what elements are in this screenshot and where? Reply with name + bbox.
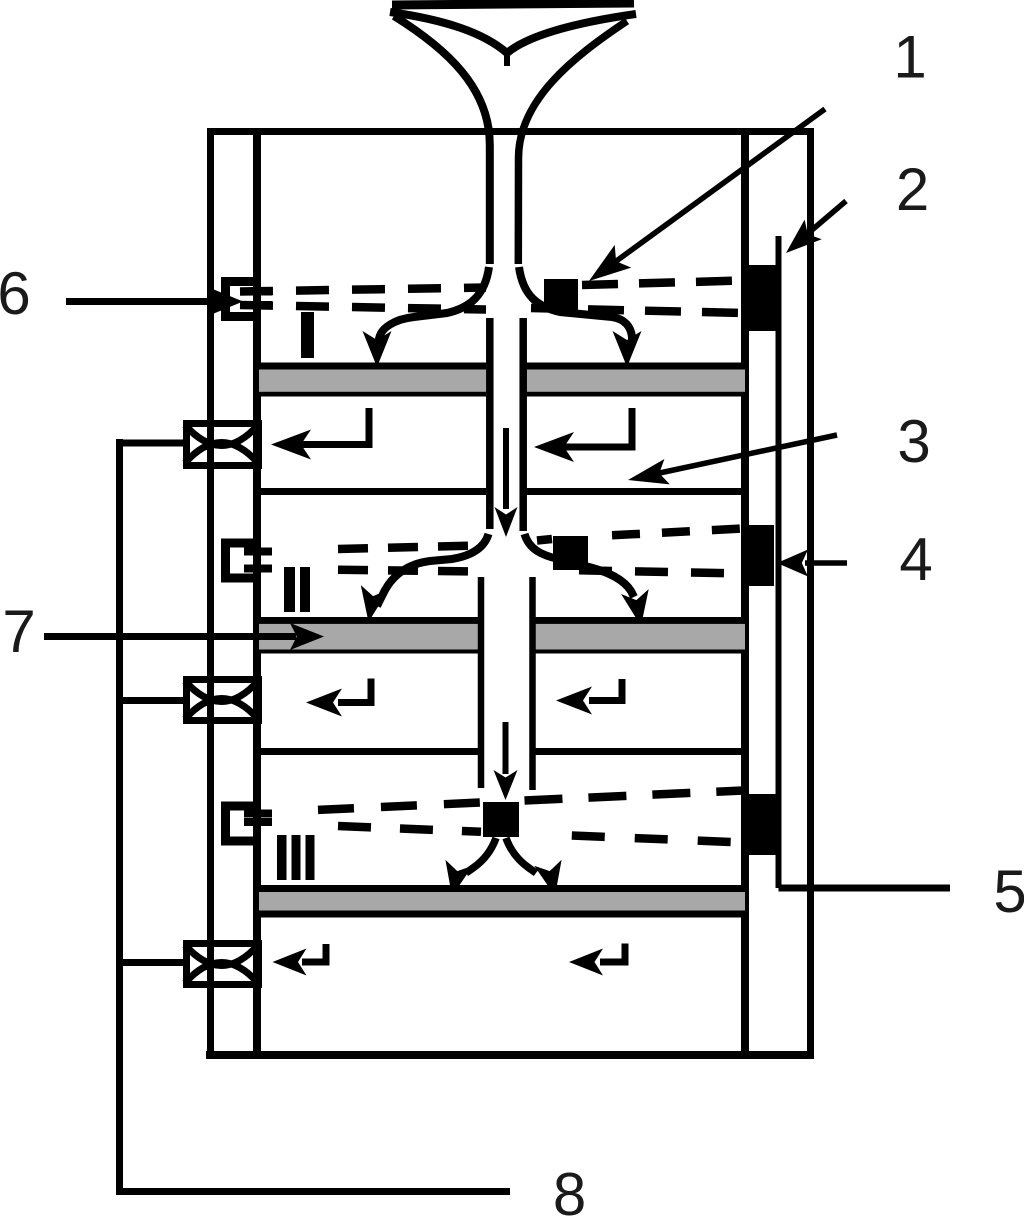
signal line to 5 (779, 885, 951, 892)
valve branch III (116, 959, 183, 966)
nozzle block 3 (stage III) (483, 802, 519, 837)
valve branch II (116, 697, 183, 704)
label 2 (896, 156, 929, 223)
stage I beam upper left (240, 288, 486, 292)
vessel top wall (207, 128, 814, 135)
stage II beam upper left (338, 546, 477, 550)
stage II spread arrowhead left (361, 585, 389, 622)
valve branch I (116, 440, 183, 447)
label 6 (0, 260, 31, 327)
svg-text:8: 8 (553, 1161, 586, 1220)
drain header pipe (116, 439, 123, 1192)
vessel outer right wall (807, 128, 814, 1059)
svg-text:2: 2 (896, 156, 929, 223)
tray II recirculation arrow left (306, 679, 371, 717)
stage I spread arrowhead right (613, 331, 642, 367)
numeral I (301, 312, 314, 358)
numeral II (284, 567, 310, 612)
tray II recirculation arrow right (556, 679, 622, 715)
valve V1 (185, 424, 259, 466)
stage III beam lower left (338, 826, 481, 832)
downcomer II right wall (529, 577, 536, 790)
stage II spread stream left (377, 534, 489, 606)
leader arrow 3 (628, 435, 837, 484)
stage III spread arrowhead right (534, 860, 561, 896)
funnel rim (392, 3, 634, 5)
stage III beam upper left (318, 803, 481, 810)
divider II/III left (261, 748, 478, 755)
leader arrow 4 (777, 550, 847, 577)
label 3 (897, 408, 930, 475)
stage II spread stream right (525, 534, 635, 597)
label 5 (993, 858, 1024, 925)
numeral III (277, 835, 315, 880)
stage III spread stream right (506, 838, 536, 873)
divider I/II right (527, 488, 746, 495)
funnel cone right (507, 14, 636, 53)
vessel inner left wall (253, 128, 261, 1059)
vessel bottom wall (206, 1051, 813, 1059)
stage II beam lower right (579, 570, 743, 573)
stage III beam upper right (525, 791, 744, 801)
svg-text:1: 1 (893, 24, 926, 91)
sensor block stage I (746, 265, 777, 331)
stage I beam upper right (582, 281, 743, 286)
emitter box I (226, 282, 262, 317)
tray III recirculation arrow left (273, 944, 327, 976)
funnel cone left (390, 12, 507, 53)
emitter box III bars (244, 814, 272, 823)
tray I right (523, 363, 745, 397)
sensor block stage II (746, 525, 774, 586)
stage I spread stream left (379, 267, 489, 343)
downcomer II left wall (478, 577, 485, 788)
sensor block stage III (746, 794, 781, 855)
tray I recirculation arrow left (271, 408, 369, 460)
label 4 (899, 526, 932, 593)
emitter box I bars (244, 292, 272, 306)
vessel outer left wall (207, 128, 214, 1059)
svg-text:6: 6 (0, 260, 31, 327)
svg-text:7: 7 (2, 598, 35, 665)
emitter box II bars (244, 552, 272, 569)
valve V3 (185, 944, 259, 985)
label 1 (893, 24, 926, 91)
funnel cone tip (504, 51, 510, 66)
stage II beam upper right (612, 529, 743, 536)
stage I spread arrowhead left (363, 331, 392, 367)
emitter box III (226, 806, 262, 841)
svg-text:3: 3 (897, 408, 930, 475)
tray I recirculation arrow right (534, 408, 632, 462)
svg-text:4: 4 (899, 526, 932, 593)
funnel outer wall right (518, 21, 627, 264)
leader arrow 2 (786, 201, 846, 253)
stage III spread stream left (466, 838, 496, 873)
downcomer I flow arrow (495, 428, 518, 537)
tray I left (259, 363, 486, 397)
downcomer I left wall (486, 318, 494, 529)
valve V2 (185, 680, 259, 721)
stage III spread arrowhead left (445, 860, 472, 896)
downcomer II flow arrow (494, 722, 518, 800)
tray II left (259, 617, 478, 654)
stage II beam upper mid (537, 539, 552, 541)
feed arrow 7 line (44, 633, 296, 640)
tray II right (535, 617, 745, 654)
tray III (259, 885, 745, 918)
nozzle block 2 (stage II) (553, 536, 588, 570)
emitter box II (226, 543, 262, 578)
svg-text:5: 5 (993, 858, 1024, 925)
stage II beam lower left (338, 570, 477, 572)
vessel inner right wall (741, 128, 749, 1059)
stage III beam lower right (572, 836, 743, 843)
feed arrow 7 head (290, 623, 324, 650)
tray III recirculation arrow right (569, 944, 625, 976)
divider I/II left (261, 488, 486, 495)
stage II spread arrowhead right (621, 589, 649, 626)
stage I beam lower left (240, 305, 486, 310)
label 8 (553, 1161, 586, 1220)
leader arrow 6 (66, 288, 243, 316)
funnel outer wall left (394, 16, 490, 264)
label 7 (2, 598, 35, 665)
divider II/III right (535, 748, 745, 755)
drain line to 8 (116, 1188, 510, 1195)
stage I spread stream right (519, 267, 632, 341)
stage I beam lower right (531, 308, 743, 313)
sensor bus line (776, 236, 782, 888)
nozzle block 1 (stage I) (544, 279, 578, 312)
leader arrow 1 (589, 109, 825, 281)
downcomer I right wall (519, 318, 527, 531)
